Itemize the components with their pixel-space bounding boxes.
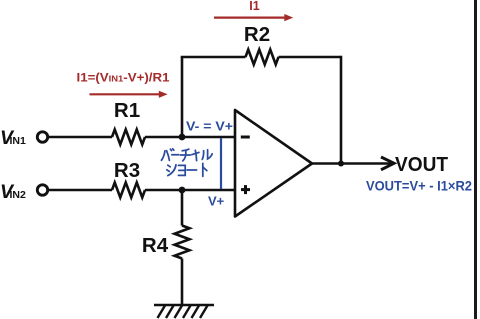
input terminal VIN2: [37, 185, 47, 195]
feedback wire top right: [279, 56, 342, 59]
annotation katakana バーチャル: [161, 149, 212, 161]
annotation katakana ショート: [167, 163, 207, 176]
svg-text:V- = V+: V- = V+: [186, 118, 233, 133]
op-amp U1: [235, 110, 312, 217]
svg-text:I1: I1: [249, 0, 259, 13]
svg-text:R4: R4: [142, 234, 169, 257]
svg-text:R2: R2: [244, 23, 270, 46]
output arrow: [381, 157, 394, 170]
node V+ junction: [179, 187, 186, 194]
op-amp minus pin label: [241, 136, 250, 139]
input terminal VIN1: [37, 132, 47, 142]
svg-text:V+: V+: [208, 194, 225, 209]
svg-text:VOUT=V+ - I1×R2: VOUT=V+ - I1×R2: [366, 177, 472, 193]
wire R3 to node V+: [145, 189, 235, 192]
op-amp plus pin label: [241, 185, 250, 194]
svg-text:I1=(VIN1-V+)/R1: I1=(VIN1-V+)/R1: [77, 70, 170, 84]
feedback wire down: [340, 56, 343, 164]
wire R1 to node V-: [145, 136, 235, 139]
node output junction: [338, 161, 344, 167]
resistor R4: [175, 226, 190, 259]
feedback wire up: [181, 57, 184, 138]
resistor R3: [112, 183, 145, 198]
wire VIN1 to R1: [48, 136, 112, 139]
wire op-amp output: [312, 162, 392, 165]
svg-text:IN2: IN2: [10, 189, 27, 201]
node V- junction: [179, 134, 186, 141]
feedback wire top left: [181, 56, 246, 59]
current arrow I1 top: [214, 14, 293, 21]
ground: [154, 305, 214, 318]
svg-text:IN1: IN1: [10, 135, 27, 147]
resistor R1: [112, 130, 145, 145]
wire node V+ to R4: [181, 190, 184, 226]
wire VIN2 to R3: [48, 189, 112, 192]
virtual short bracket: [220, 138, 222, 189]
wire R4 to ground: [181, 259, 184, 306]
svg-text:R3: R3: [114, 159, 140, 182]
resistor R2: [246, 50, 279, 65]
svg-text:R1: R1: [114, 99, 140, 122]
frame right border: [474, 0, 477, 319]
current arrow I1 left: [90, 91, 168, 98]
svg-text:VOUT: VOUT: [395, 154, 448, 176]
